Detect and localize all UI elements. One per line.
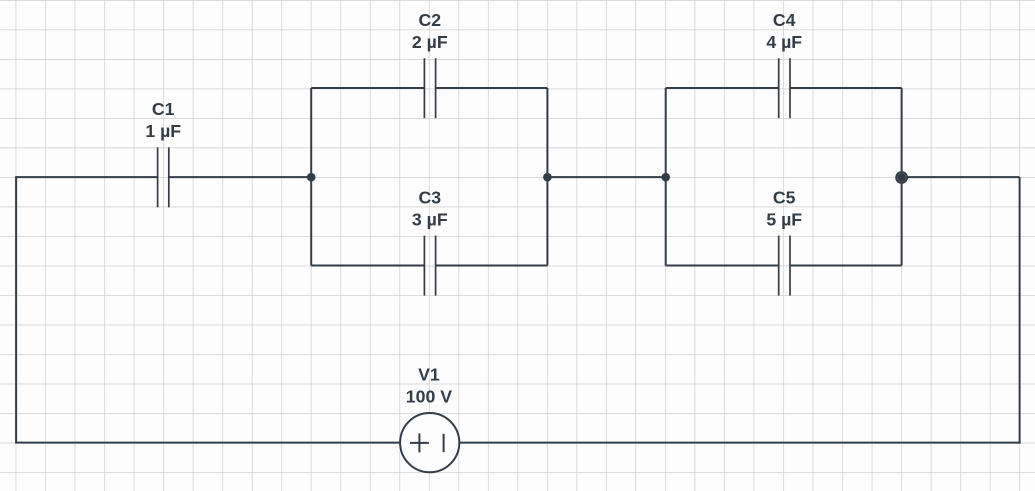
wire: box1 top left (311, 87, 424, 89)
svg-text:C3: C3 (418, 187, 441, 207)
svg-text:100 V: 100 V (406, 386, 452, 406)
node D junction dot with ring (895, 171, 908, 184)
capacitor C2 (424, 58, 435, 118)
capacitor C3 (424, 236, 435, 296)
capacitor C1 (158, 147, 169, 207)
node A junction dot (307, 173, 316, 182)
label C3 (412, 187, 448, 229)
node C junction dot (661, 173, 670, 182)
capacitor C5 (779, 236, 790, 296)
wire: C1 to node A (169, 176, 311, 178)
svg-text:C5: C5 (773, 187, 796, 207)
svg-text:C2: C2 (418, 10, 441, 30)
node B junction dot (543, 173, 552, 182)
wire: bottom right segment (459, 442, 1020, 444)
svg-text:3 µF: 3 µF (412, 209, 448, 229)
wire: node B to node C (547, 176, 665, 178)
svg-text:V1: V1 (418, 364, 440, 384)
wire: box1 top right (436, 87, 548, 89)
svg-text:C4: C4 (773, 10, 796, 30)
wire: box2 top left (666, 87, 779, 89)
wire: main rail left of C1 (16, 176, 158, 178)
wire: box1 bottom left (311, 265, 424, 267)
svg-text:1 µF: 1 µF (145, 121, 181, 141)
wire: bottom left segment (15, 442, 400, 444)
wire: box2 bottom left (666, 265, 779, 267)
wire: left outer vertical (15, 176, 17, 443)
wire: box1 bottom right (436, 265, 548, 267)
wire: box1 left vertical (310, 88, 312, 266)
wire: box2 bottom right (790, 265, 902, 267)
svg-text:4 µF: 4 µF (766, 32, 802, 52)
label C5 (766, 187, 802, 229)
label C2 (412, 10, 448, 52)
wire: right outer vertical (1019, 177, 1021, 444)
label C1 (145, 99, 181, 141)
label C4 (766, 10, 802, 52)
svg-text:5 µF: 5 µF (766, 209, 802, 229)
svg-text:C1: C1 (152, 99, 175, 119)
voltage source V1 (400, 413, 459, 472)
wire: box2 right vertical (901, 88, 903, 266)
svg-text:2 µF: 2 µF (412, 32, 448, 52)
capacitor C4 (779, 58, 790, 118)
wire: box2 top right (790, 87, 902, 89)
wire: box1 right vertical (546, 88, 548, 266)
wire: node D to right edge (902, 176, 1020, 178)
label V1 (406, 364, 452, 406)
wire: box2 left vertical (665, 88, 667, 266)
